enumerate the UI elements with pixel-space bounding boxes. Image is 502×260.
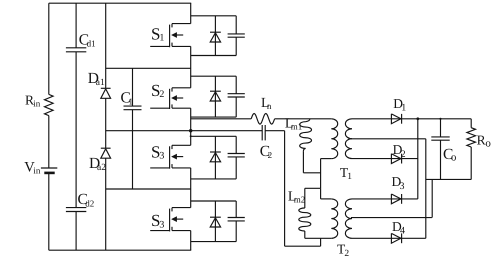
svg-text:d1: d1	[87, 38, 96, 48]
svg-text:2: 2	[159, 89, 164, 100]
svg-text:n: n	[267, 101, 272, 111]
svg-text:R: R	[477, 133, 486, 148]
svg-text:2: 2	[401, 149, 406, 160]
svg-text:1: 1	[129, 96, 134, 106]
svg-text:1: 1	[159, 33, 164, 44]
svg-text:1: 1	[347, 172, 352, 182]
svg-text:2: 2	[268, 150, 273, 160]
svg-text:3: 3	[400, 181, 405, 192]
svg-text:o: o	[451, 152, 457, 164]
svg-text:m1: m1	[291, 121, 303, 131]
svg-text:a2: a2	[97, 163, 106, 173]
svg-text:in: in	[33, 99, 41, 109]
svg-text:4: 4	[400, 226, 405, 237]
svg-text:3: 3	[159, 151, 164, 162]
svg-text:2: 2	[344, 249, 349, 259]
svg-text:a1: a1	[96, 78, 105, 88]
svg-text:1: 1	[401, 103, 406, 114]
svg-text:3: 3	[159, 219, 164, 230]
svg-text:in: in	[33, 166, 41, 176]
svg-text:m2: m2	[294, 194, 306, 204]
svg-text:o: o	[485, 138, 491, 150]
svg-text:d2: d2	[85, 198, 94, 208]
